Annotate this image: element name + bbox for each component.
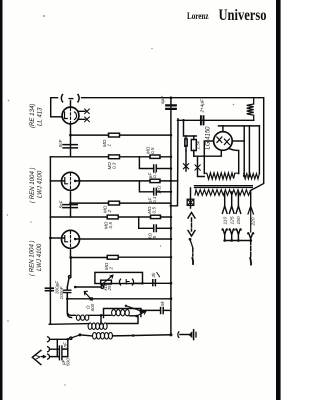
svg-text:1nF: 1nF bbox=[63, 341, 68, 350]
svg-text:0,1: 0,1 bbox=[152, 171, 157, 178]
svg-text:2+4µF: 2+4µF bbox=[200, 98, 205, 113]
svg-text:MΩ: MΩ bbox=[147, 206, 152, 214]
svg-text:( REN 1004 ): ( REN 1004 ) bbox=[29, 167, 36, 203]
svg-text:LL 413: LL 413 bbox=[37, 107, 44, 126]
svg-text:LG 4150: LG 4150 bbox=[205, 126, 211, 150]
svg-text:MΩ: MΩ bbox=[107, 162, 112, 170]
svg-text:MΩ: MΩ bbox=[146, 146, 151, 154]
svg-text:5: 5 bbox=[152, 236, 157, 239]
svg-text:5k: 5k bbox=[160, 300, 165, 306]
svg-text:5nF: 5nF bbox=[59, 199, 64, 208]
svg-text:220: 220 bbox=[251, 217, 257, 226]
svg-text:Lorenz: Lorenz bbox=[187, 11, 209, 21]
svg-text:2: 2 bbox=[107, 210, 112, 214]
svg-text:MΩ: MΩ bbox=[104, 221, 109, 229]
svg-text:1: 1 bbox=[107, 144, 112, 147]
svg-text:150: 150 bbox=[236, 216, 242, 224]
svg-text:Universo: Universo bbox=[219, 7, 267, 24]
svg-text:kΩ: kΩ bbox=[148, 233, 153, 239]
svg-text:0,5: 0,5 bbox=[150, 147, 155, 154]
svg-text:0,3: 0,3 bbox=[112, 162, 117, 169]
svg-text:LWJ 4100: LWJ 4100 bbox=[37, 170, 44, 198]
svg-text:2: 2 bbox=[109, 267, 114, 271]
svg-text:0,1: 0,1 bbox=[152, 196, 157, 203]
svg-text:1,5k: 1,5k bbox=[196, 140, 201, 149]
svg-text:600: 600 bbox=[90, 303, 95, 311]
svg-text:(RE 134): (RE 134) bbox=[29, 104, 36, 128]
svg-text:110: 110 bbox=[223, 217, 229, 225]
svg-text:MΩ: MΩ bbox=[103, 205, 108, 213]
svg-text:( REN 1004 ): ( REN 1004 ) bbox=[29, 240, 36, 276]
svg-text:Ω: Ω bbox=[86, 305, 91, 309]
svg-text:3k: 3k bbox=[151, 272, 156, 278]
svg-text:kΩ: kΩ bbox=[103, 284, 108, 290]
svg-text:5nF: 5nF bbox=[58, 138, 63, 147]
svg-text:MΩ: MΩ bbox=[102, 139, 107, 147]
svg-text:1kΩ: 1kΩ bbox=[157, 185, 162, 194]
svg-text:100pF: 100pF bbox=[59, 285, 64, 299]
svg-text:MΩ: MΩ bbox=[104, 262, 109, 270]
svg-text:500: 500 bbox=[66, 358, 71, 366]
svg-text:125: 125 bbox=[230, 216, 236, 224]
svg-text:0,5: 0,5 bbox=[152, 207, 157, 214]
svg-text:50nF: 50nF bbox=[183, 136, 188, 148]
svg-text:0,5: 0,5 bbox=[108, 222, 113, 229]
svg-text:LWJ 4100: LWJ 4100 bbox=[36, 243, 43, 271]
svg-text:6µF: 6µF bbox=[160, 95, 165, 104]
